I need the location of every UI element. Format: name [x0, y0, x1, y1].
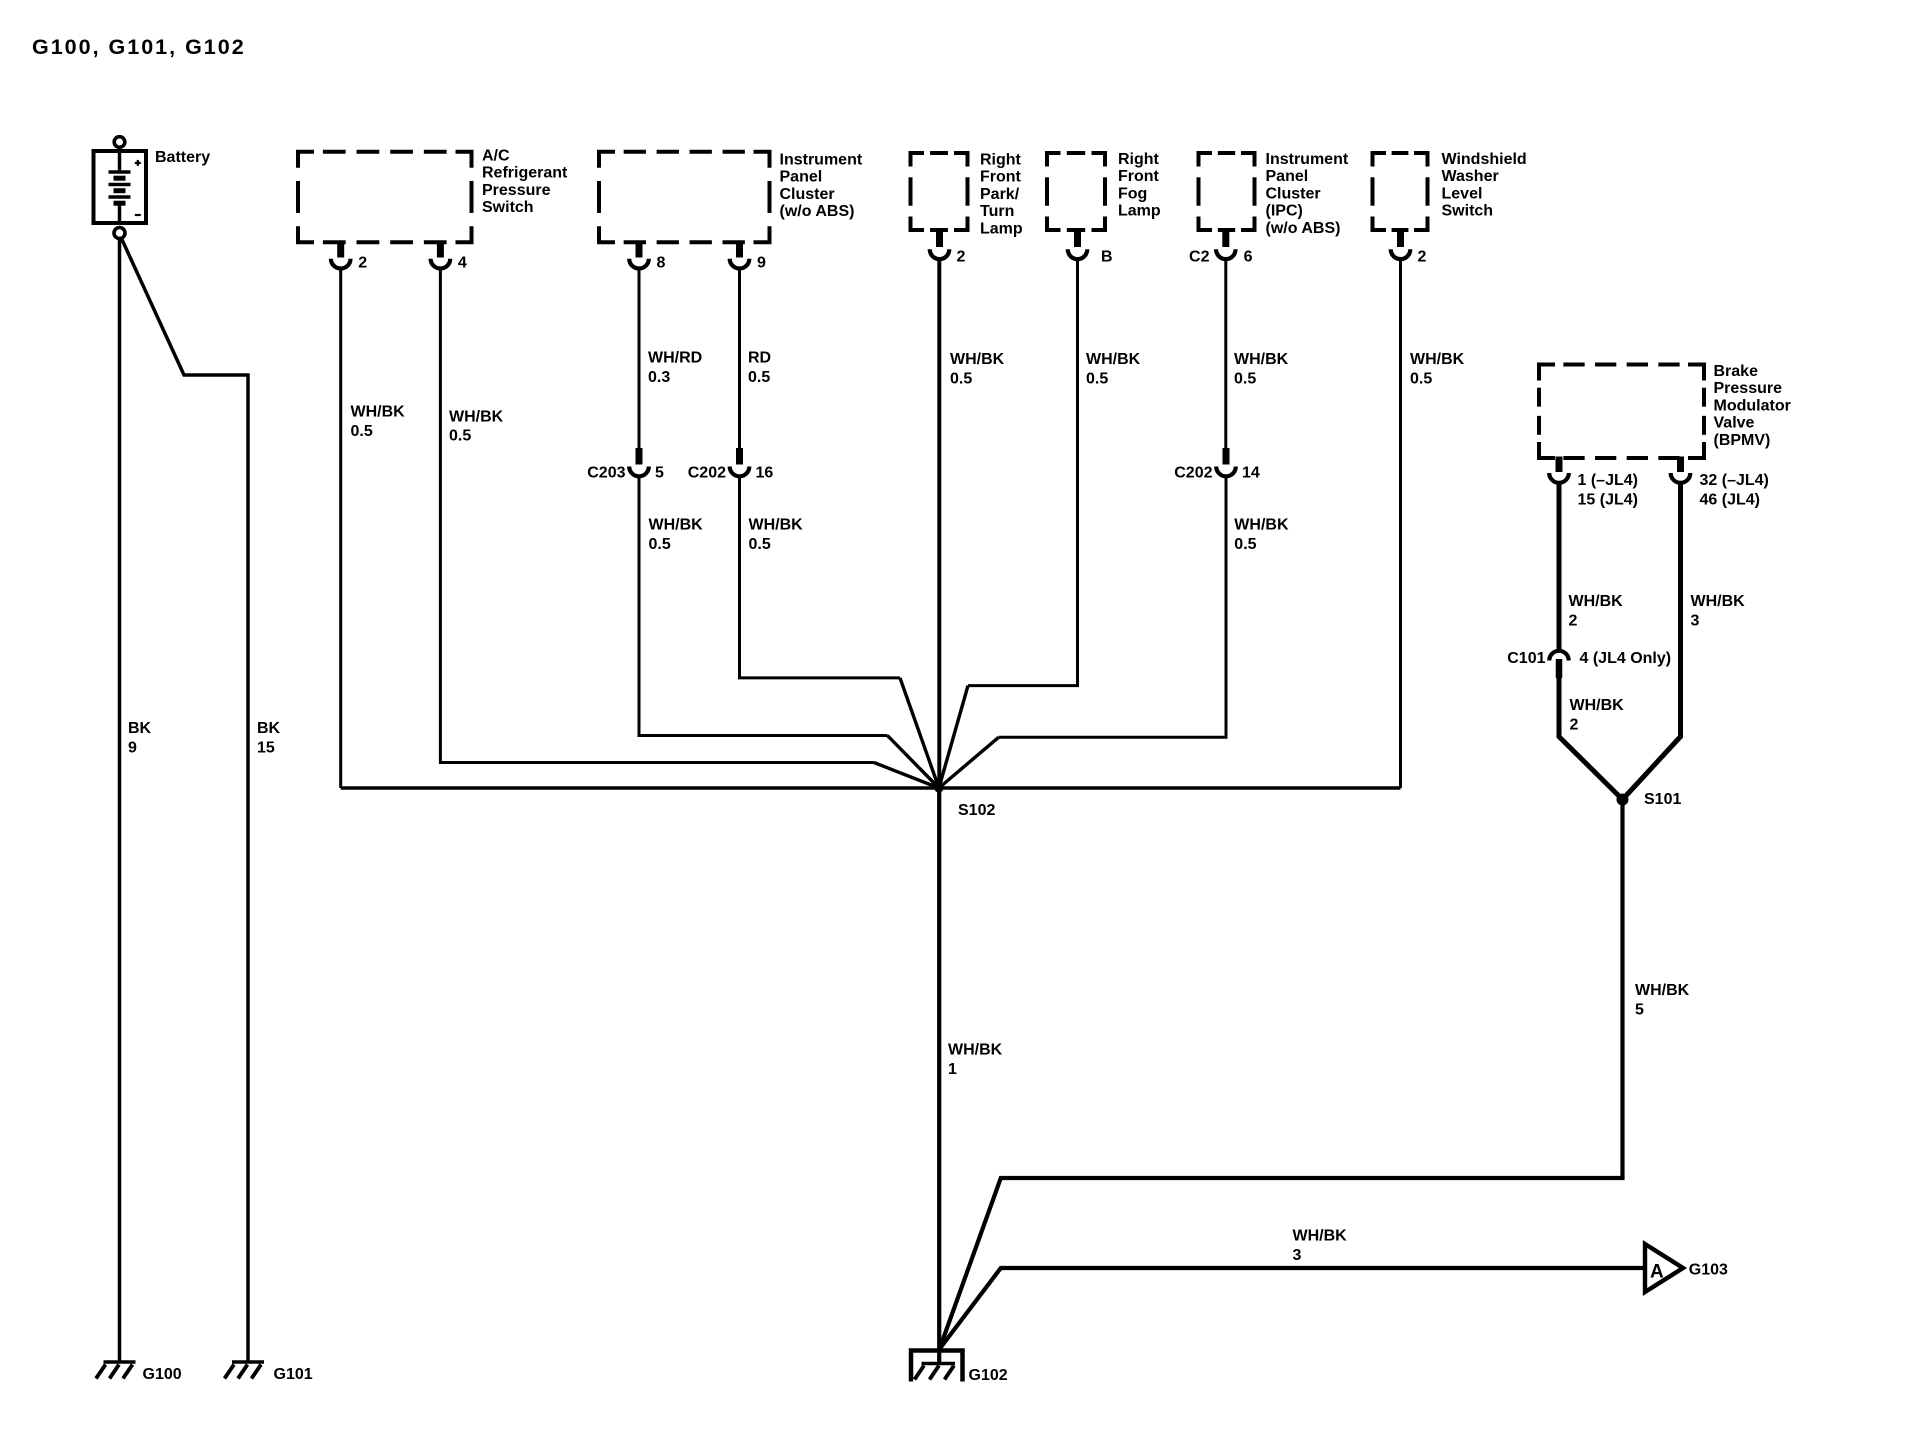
svg-text:16: 16	[756, 465, 774, 482]
svg-text:RD: RD	[748, 350, 771, 367]
svg-text:Battery: Battery	[155, 149, 210, 166]
svg-text:C2: C2	[1189, 248, 1210, 265]
svg-text:WH/BK: WH/BK	[1691, 593, 1746, 610]
svg-text:0.3: 0.3	[648, 369, 670, 386]
svg-text:0.5: 0.5	[649, 536, 671, 553]
svg-text:Brake: Brake	[1714, 363, 1759, 380]
svg-text:WH/BK: WH/BK	[1293, 1228, 1348, 1245]
svg-text:(BPMV): (BPMV)	[1714, 432, 1771, 449]
svg-text:3: 3	[1691, 612, 1700, 629]
svg-text:WH/BK: WH/BK	[1635, 982, 1690, 999]
svg-text:C202: C202	[1174, 465, 1212, 482]
svg-text:2: 2	[1569, 612, 1578, 629]
svg-text:2: 2	[1418, 248, 1427, 265]
svg-text:B: B	[1101, 248, 1113, 265]
svg-text:32 (–JL4): 32 (–JL4)	[1700, 472, 1769, 489]
svg-text:WH/RD: WH/RD	[648, 350, 702, 367]
svg-text:9: 9	[128, 739, 137, 756]
svg-text:WH/BK: WH/BK	[1410, 351, 1465, 368]
svg-text:WH/BK: WH/BK	[749, 517, 804, 534]
svg-text:Right: Right	[980, 152, 1022, 169]
svg-text:6: 6	[1244, 248, 1253, 265]
svg-text:14: 14	[1242, 465, 1260, 482]
svg-text:0.5: 0.5	[1410, 370, 1432, 387]
svg-text:BK: BK	[257, 720, 281, 737]
svg-text:Instrument: Instrument	[780, 152, 863, 169]
svg-text:C203: C203	[587, 465, 625, 482]
svg-text:WH/BK: WH/BK	[1234, 517, 1289, 534]
svg-text:Park/: Park/	[980, 186, 1020, 203]
svg-text:WH/BK: WH/BK	[1234, 351, 1289, 368]
svg-text:0.5: 0.5	[351, 423, 373, 440]
svg-text:S102: S102	[958, 802, 995, 819]
svg-text:0.5: 0.5	[950, 370, 972, 387]
svg-text:15 (JL4): 15 (JL4)	[1578, 492, 1638, 509]
svg-text:A/C: A/C	[482, 148, 510, 165]
svg-text:(w/o ABS): (w/o ABS)	[780, 203, 855, 220]
svg-text:Windshield: Windshield	[1442, 151, 1527, 168]
svg-text:WH/BK: WH/BK	[649, 517, 704, 534]
svg-text:1: 1	[948, 1061, 957, 1078]
svg-text:Lamp: Lamp	[1118, 203, 1161, 220]
svg-text:2: 2	[1570, 716, 1579, 733]
svg-text:WH/BK: WH/BK	[1569, 593, 1624, 610]
svg-text:WH/BK: WH/BK	[449, 408, 504, 425]
svg-text:9: 9	[757, 255, 766, 272]
svg-text:G103: G103	[1689, 1262, 1728, 1279]
svg-text:2: 2	[957, 248, 966, 265]
svg-text:Refrigerant: Refrigerant	[482, 165, 568, 182]
svg-text:4 (JL4 Only): 4 (JL4 Only)	[1580, 650, 1672, 667]
svg-text:Modulator: Modulator	[1714, 397, 1791, 414]
svg-text:A: A	[1650, 1262, 1664, 1283]
svg-text:Pressure: Pressure	[1714, 380, 1783, 397]
svg-text:G102: G102	[969, 1367, 1008, 1384]
svg-text:G100: G100	[143, 1366, 182, 1383]
svg-text:8: 8	[657, 255, 666, 272]
svg-text:Pressure: Pressure	[482, 182, 551, 199]
svg-text:Front: Front	[1118, 168, 1160, 185]
svg-text:BK: BK	[128, 720, 152, 737]
svg-text:Right: Right	[1118, 151, 1160, 168]
svg-text:Panel: Panel	[1266, 168, 1309, 185]
svg-text:0.5: 0.5	[1234, 370, 1256, 387]
svg-text:Fog: Fog	[1118, 185, 1147, 202]
svg-text:0.5: 0.5	[748, 369, 770, 386]
svg-text:WH/BK: WH/BK	[948, 1042, 1003, 1059]
svg-text:0.5: 0.5	[1086, 370, 1108, 387]
svg-text:(IPC): (IPC)	[1266, 203, 1303, 220]
svg-text:Front: Front	[980, 169, 1022, 186]
svg-text:0.5: 0.5	[749, 536, 771, 553]
svg-text:5: 5	[655, 465, 664, 482]
svg-text:Instrument: Instrument	[1266, 151, 1349, 168]
svg-text:(w/o ABS): (w/o ABS)	[1266, 220, 1341, 237]
svg-text:4: 4	[458, 255, 467, 272]
svg-text:3: 3	[1293, 1247, 1302, 1264]
svg-text:0.5: 0.5	[1234, 536, 1256, 553]
svg-text:Panel: Panel	[780, 169, 823, 186]
svg-text:G101: G101	[274, 1366, 313, 1383]
svg-text:G100, G101, G102: G100, G101, G102	[32, 35, 246, 59]
svg-text:Washer: Washer	[1442, 168, 1499, 185]
svg-text:Level: Level	[1442, 185, 1483, 202]
svg-text:WH/BK: WH/BK	[351, 404, 406, 421]
svg-text:Cluster: Cluster	[1266, 185, 1321, 202]
svg-text:C101: C101	[1507, 650, 1545, 667]
svg-text:0.5: 0.5	[449, 428, 471, 445]
svg-text:S101: S101	[1644, 791, 1681, 808]
svg-text:Valve: Valve	[1714, 415, 1755, 432]
svg-text:Cluster: Cluster	[780, 186, 835, 203]
svg-text:1 (–JL4): 1 (–JL4)	[1578, 472, 1638, 489]
svg-text:15: 15	[257, 739, 275, 756]
svg-text:Lamp: Lamp	[980, 220, 1023, 237]
svg-text:WH/BK: WH/BK	[950, 351, 1005, 368]
svg-text:5: 5	[1635, 1001, 1644, 1018]
svg-text:C202: C202	[688, 465, 726, 482]
svg-text:Switch: Switch	[1442, 203, 1494, 220]
svg-text:46 (JL4): 46 (JL4)	[1700, 492, 1760, 509]
svg-text:Turn: Turn	[980, 203, 1014, 220]
svg-text:WH/BK: WH/BK	[1570, 697, 1625, 714]
svg-text:Switch: Switch	[482, 199, 534, 216]
svg-text:2: 2	[358, 255, 367, 272]
svg-text:WH/BK: WH/BK	[1086, 351, 1141, 368]
